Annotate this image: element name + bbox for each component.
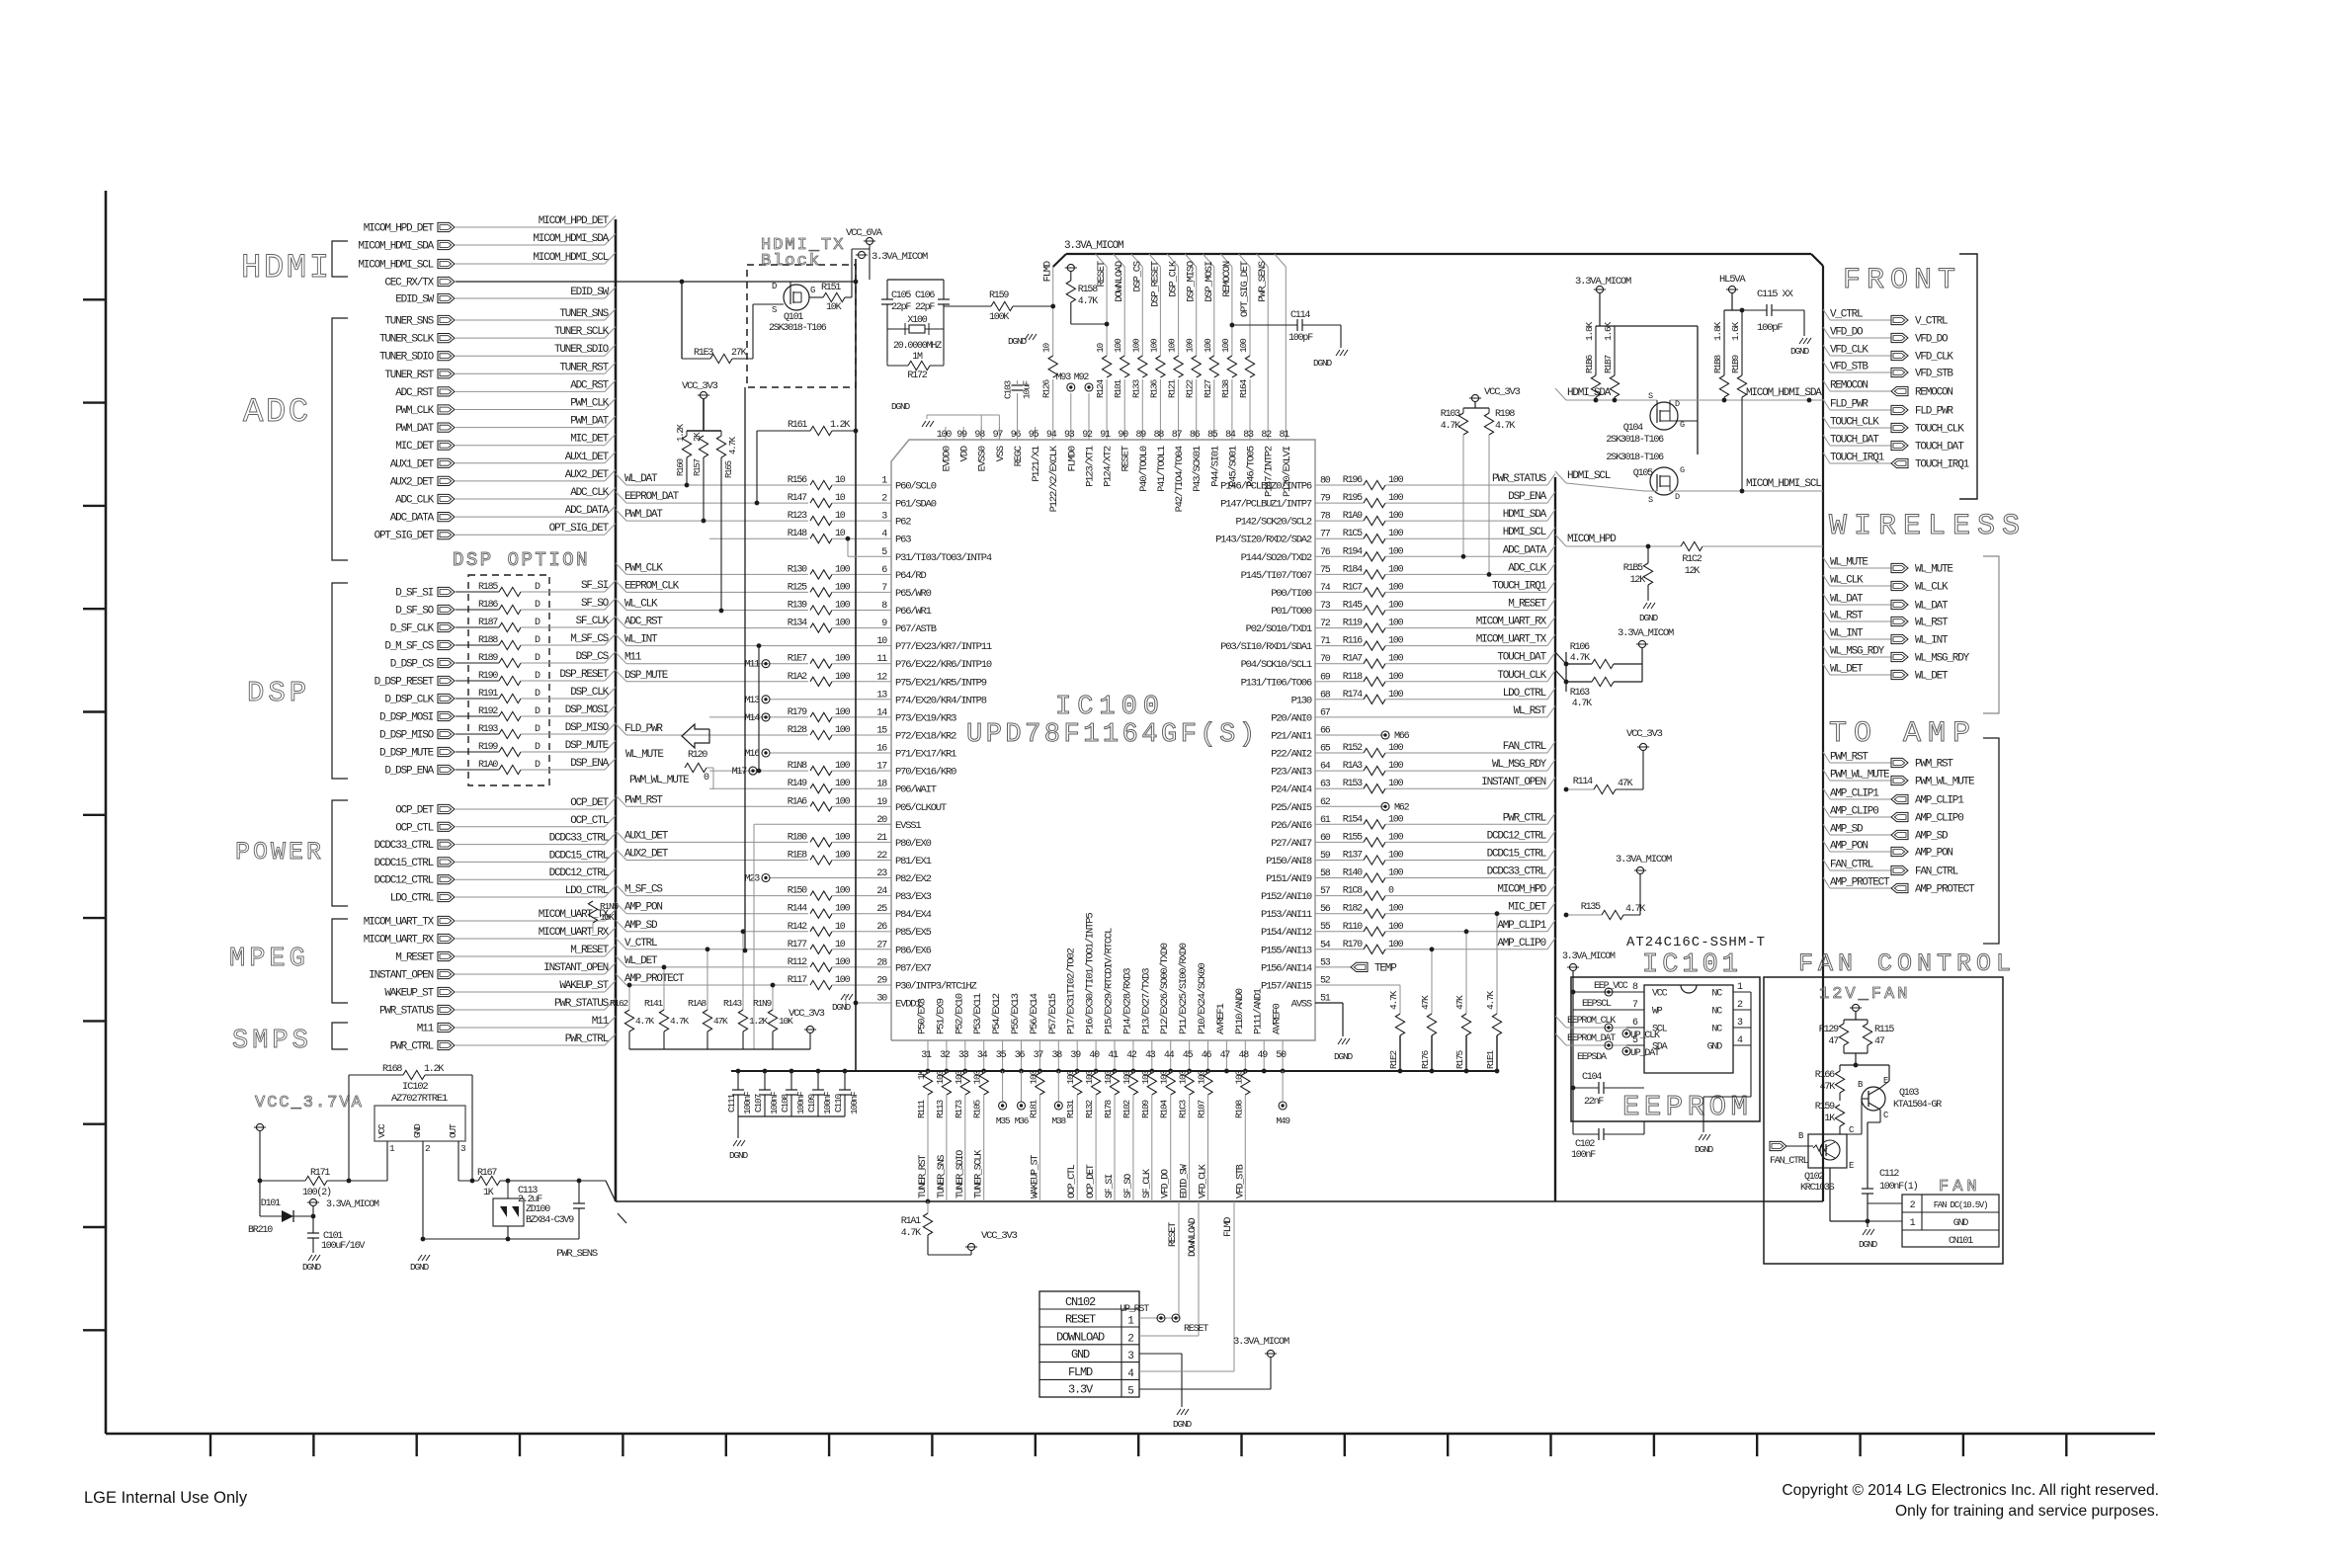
svg-text:100uF/16V: 100uF/16V — [321, 1240, 365, 1252]
svg-text:WL_RST: WL_RST — [1830, 611, 1864, 622]
svg-text:DCDC12_CTRL: DCDC12_CTRL — [549, 867, 609, 879]
svg-text:83: 83 — [1243, 430, 1254, 441]
svg-text:VCC_3V3: VCC_3V3 — [682, 380, 718, 392]
testpoint M66 — [1381, 731, 1389, 739]
svg-text:D_DSP_CLK: D_DSP_CLK — [384, 695, 434, 706]
pin 39 P17/EX31TI02/TO02 — [1076, 1040, 1078, 1071]
svg-text:WL_DAT: WL_DAT — [624, 473, 658, 485]
svg-text:ADC_DATA: ADC_DATA — [390, 513, 435, 525]
svg-text:P81/EX1: P81/EX1 — [895, 856, 932, 867]
resistor R151 10K — [809, 296, 823, 298]
svg-text:M13: M13 — [745, 696, 761, 706]
resistor R111 1K — [927, 1071, 929, 1073]
pin 16 P71/EX17/KR1 — [879, 752, 891, 754]
svg-text:AMP_PROTECT: AMP_PROTECT — [1915, 884, 1975, 896]
pin 20 EVSS1 — [879, 823, 891, 825]
svg-text:M_RESET: M_RESET — [1508, 599, 1546, 611]
pin 97 VSS — [998, 427, 1000, 440]
tag WL_MSG_RDY — [1823, 646, 1830, 657]
svg-text:2SK3018-T106: 2SK3018-T106 — [769, 323, 827, 334]
svg-text:50: 50 — [1276, 1050, 1287, 1061]
svg-text:NC: NC — [1711, 989, 1722, 1000]
svg-text:HDMI_SDA: HDMI_SDA — [1567, 387, 1612, 399]
svg-text:P72/EX18/KR2: P72/EX18/KR2 — [895, 731, 956, 743]
svg-text:TUNER_SCLK: TUNER_SCLK — [974, 1150, 985, 1198]
transistor Q101 2SK3018-T106 — [784, 285, 809, 310]
svg-text:R195: R195 — [1343, 493, 1363, 504]
svg-text:C109: C109 — [806, 1093, 817, 1113]
svg-text:C105 C106: C105 C106 — [891, 290, 935, 301]
svg-text:4.7K: 4.7K — [1485, 990, 1496, 1010]
svg-text:45: 45 — [1183, 1050, 1194, 1061]
svg-text:WAKEUP_ST: WAKEUP_ST — [384, 988, 434, 1000]
resistor R109 100 — [1151, 1071, 1153, 1073]
svg-text:100: 100 — [835, 601, 851, 612]
svg-text:PWR_STATUS: PWR_STATUS — [1492, 473, 1547, 485]
bracket SMPS group — [332, 1023, 348, 1049]
svg-text:ADC_RST: ADC_RST — [624, 617, 663, 628]
tag FLD_PWR — [1823, 399, 1830, 410]
svg-text:93: 93 — [1064, 430, 1075, 441]
wire WL_INT branch — [758, 646, 760, 772]
svg-text:R196: R196 — [1343, 475, 1363, 486]
svg-text:VCC_6VA: VCC_6VA — [846, 227, 883, 239]
svg-text:P00/TI00: P00/TI00 — [1271, 588, 1312, 600]
svg-text:AVSS: AVSS — [1291, 999, 1312, 1011]
svg-text:R159: R159 — [989, 290, 1009, 301]
svg-text:UP_DAT: UP_DAT — [1630, 1048, 1660, 1059]
svg-text:P64/RD: P64/RD — [895, 570, 927, 582]
svg-text:LDO_CTRL: LDO_CTRL — [390, 893, 434, 905]
svg-text:DGND: DGND — [1790, 346, 1810, 357]
resistor R165 4.7K — [720, 431, 722, 436]
svg-text:AMP_CLIP1: AMP_CLIP1 — [1830, 788, 1879, 800]
svg-text:R1E8: R1E8 — [788, 851, 807, 862]
pin 66 P21/ANI1 — [1315, 734, 1327, 736]
pin 46 P10/EX24/SCK00 — [1207, 1040, 1209, 1071]
svg-text:100: 100 — [1388, 654, 1404, 665]
svg-text:100: 100 — [835, 654, 851, 665]
resistor R175 47K — [1465, 932, 1467, 1014]
svg-text:R1N5: R1N5 — [600, 901, 620, 912]
testpoint M62 — [1381, 802, 1389, 810]
svg-text:OPT_SIG_DET: OPT_SIG_DET — [374, 531, 435, 542]
svg-text:R187: R187 — [478, 618, 498, 628]
svg-text:INSTANT_OPEN: INSTANT_OPEN — [369, 970, 433, 982]
svg-text:M_SF_CS: M_SF_CS — [570, 633, 609, 645]
svg-text:PWR_CTRL: PWR_CTRL — [1503, 812, 1546, 824]
svg-text:100nF: 100nF — [1571, 1150, 1596, 1161]
pin 36 P55/EX13 — [1021, 1040, 1023, 1071]
svg-text:DGND: DGND — [1334, 1051, 1354, 1062]
svg-text:P15/EX29/RTCDIV/RTCCL: P15/EX29/RTCDIV/RTCCL — [1104, 928, 1116, 1034]
capacitor C108 100nF — [790, 1071, 792, 1090]
svg-text:VFD_STB: VFD_STB — [1830, 362, 1868, 373]
svg-text:WL_DET: WL_DET — [1915, 671, 1949, 683]
svg-text:100: 100 — [835, 725, 851, 736]
svg-text:100: 100 — [935, 1070, 946, 1085]
svg-text:INSTANT_OPEN: INSTANT_OPEN — [543, 962, 608, 974]
svg-text:EVSS0: EVSS0 — [977, 446, 989, 471]
tag PWM_WL_MUTE — [1823, 770, 1830, 781]
svg-text:Q102: Q102 — [1804, 1172, 1824, 1183]
svg-text:WL_CLK: WL_CLK — [1915, 582, 1949, 594]
svg-text:M93: M93 — [1056, 372, 1072, 383]
svg-text:Copyright © 2014 LG Electronic: Copyright © 2014 LG Electronics Inc. All… — [1782, 1482, 2159, 1499]
svg-text:M23: M23 — [745, 874, 761, 885]
svg-text:FLD_PWR: FLD_PWR — [624, 723, 663, 735]
svg-text:DOWNLOAD: DOWNLOAD — [1056, 1330, 1105, 1344]
svg-text:100: 100 — [1065, 1070, 1076, 1085]
svg-text:P44/SI01: P44/SI01 — [1209, 446, 1221, 487]
svg-text:MICOM_UART_TX: MICOM_UART_TX — [539, 909, 610, 921]
svg-text:P50/EX8: P50/EX8 — [917, 998, 929, 1034]
svg-text:R192: R192 — [478, 706, 498, 717]
resistor R132 100 — [1095, 1071, 1097, 1073]
svg-text:TOUCH_CLK: TOUCH_CLK — [1830, 417, 1879, 429]
wire EEPROM_DAT — [1555, 1033, 1566, 1045]
svg-text:R174: R174 — [1343, 690, 1363, 701]
pin 75 P145/TI07/TO07 — [1315, 573, 1327, 575]
svg-text:100: 100 — [1388, 868, 1404, 879]
svg-text:MICOM_HPD_DET: MICOM_HPD_DET — [364, 223, 435, 235]
svg-text:97: 97 — [993, 430, 1004, 441]
testpoint M14 — [762, 713, 770, 721]
resistor R161 1.2K — [756, 431, 758, 503]
transistor Q102 KRC103S — [1808, 1134, 1847, 1168]
wire right bus — [1554, 477, 1556, 1201]
svg-text:R1A6: R1A6 — [788, 796, 807, 807]
svg-text:DSP_CS: DSP_CS — [576, 651, 610, 663]
svg-text:3.3VA_MICOM: 3.3VA_MICOM — [1064, 240, 1123, 252]
pin 30 EVDD1 — [879, 1002, 891, 1004]
svg-text:AVREF0: AVREF0 — [1272, 1003, 1284, 1034]
svg-text:UP_CLK: UP_CLK — [1630, 1031, 1660, 1041]
svg-text:37: 37 — [1034, 1050, 1044, 1061]
svg-text:4.7K: 4.7K — [1078, 296, 1098, 307]
svg-text:R194: R194 — [1343, 546, 1363, 557]
svg-text:P03/SI10/RXD1/SDA1: P03/SI10/RXD1/SDA1 — [1220, 641, 1312, 653]
svg-text:PWR_CTRL: PWR_CTRL — [390, 1041, 434, 1053]
bracket FRONT — [1959, 254, 1977, 499]
resistor R159 100K — [944, 305, 991, 307]
pin 77 P143/SI20/RXD2/SDA2 — [1315, 537, 1327, 539]
wire EDID/dark vertical — [855, 259, 857, 1071]
pin 49 P111/AND1 — [1263, 1040, 1265, 1071]
power VCC_3.7VA — [256, 1123, 263, 1130]
svg-text:DGND: DGND — [1695, 1144, 1714, 1155]
svg-text:100: 100 — [835, 832, 851, 843]
svg-text:V_CTRL: V_CTRL — [1915, 316, 1948, 328]
svg-text:10: 10 — [1095, 342, 1106, 353]
resistors R129/R115 47 parallel — [1844, 1019, 1868, 1021]
svg-text:D_SF_CLK: D_SF_CLK — [390, 623, 435, 635]
svg-text:DSP_CS: DSP_CS — [1131, 261, 1143, 292]
svg-text:VCC_3V3: VCC_3V3 — [1626, 728, 1663, 740]
svg-text:LGE Internal Use Only: LGE Internal Use Only — [84, 1489, 248, 1507]
resistor R133 100 — [1137, 356, 1147, 379]
svg-text:10: 10 — [835, 940, 846, 950]
svg-text:TOUCH_DAT: TOUCH_DAT — [1830, 435, 1879, 447]
tag WL_RST — [1823, 611, 1830, 621]
svg-text:VCC_3V3: VCC_3V3 — [981, 1230, 1018, 1242]
resistor R122 100 — [1192, 356, 1202, 379]
svg-text:VDD: VDD — [959, 446, 971, 461]
svg-text:3.3VA_MICOM: 3.3VA_MICOM — [1233, 1336, 1289, 1348]
svg-text:35: 35 — [996, 1050, 1007, 1061]
svg-text:WL_DET: WL_DET — [1830, 664, 1864, 676]
resistor R102 100 — [1132, 1071, 1134, 1073]
pin 23 P82/EX2 — [879, 877, 891, 879]
pin 26 P85/EX5 — [879, 931, 891, 933]
svg-text:IC101: IC101 — [1642, 950, 1742, 980]
pin 5 P31/TI03/TO03/INTP4 — [879, 555, 891, 557]
resistor R124 10 — [1102, 356, 1112, 379]
svg-text:R184: R184 — [1343, 564, 1363, 575]
column pin 91 RESET — [1096, 254, 1108, 267]
svg-text:MICOM_HDMI_SDA: MICOM_HDMI_SDA — [533, 233, 609, 245]
svg-text:MICOM_UART_RX: MICOM_UART_RX — [1476, 617, 1547, 628]
pin 28 P87/EX7 — [879, 966, 891, 968]
column pin 82 PWR_SENS — [1257, 254, 1269, 267]
svg-text:R1A2: R1A2 — [788, 672, 807, 683]
resistor R166 47K — [1839, 1065, 1841, 1071]
svg-text:P82/EX2: P82/EX2 — [895, 873, 932, 885]
svg-text:EVDD0: EVDD0 — [942, 446, 954, 471]
svg-text:TOUCH_DAT: TOUCH_DAT — [1915, 442, 1964, 454]
svg-text:100: 100 — [1388, 511, 1404, 522]
svg-text:FAN_CTRL: FAN_CTRL — [1830, 860, 1873, 871]
svg-text:WL_CLK: WL_CLK — [1830, 575, 1864, 587]
svg-text:MIC_DET: MIC_DET — [570, 434, 609, 446]
svg-text:M11: M11 — [624, 652, 642, 664]
svg-text:EEPSCL: EEPSCL — [1582, 999, 1612, 1010]
svg-text:47K: 47K — [1820, 1082, 1836, 1093]
svg-text:R107: R107 — [1197, 1101, 1207, 1119]
svg-text:1.6K: 1.6K — [1730, 321, 1741, 341]
svg-text:OPT_SIG_DET: OPT_SIG_DET — [1239, 261, 1251, 317]
fan control box — [1764, 977, 2003, 1264]
svg-text:C107: C107 — [753, 1094, 764, 1113]
svg-text:4.7K: 4.7K — [1625, 904, 1645, 915]
svg-text:P30/INTP3/RTC1HZ: P30/INTP3/RTC1HZ — [895, 981, 977, 993]
svg-text:3: 3 — [1127, 1351, 1133, 1362]
svg-text:R156: R156 — [788, 475, 807, 486]
svg-text:HDMI_SCL: HDMI_SCL — [1567, 470, 1611, 482]
svg-text:P43/SCK01: P43/SCK01 — [1192, 446, 1204, 492]
svg-text:100: 100 — [1388, 922, 1404, 933]
svg-text:DSP_MOSI: DSP_MOSI — [565, 704, 609, 716]
svg-text:47: 47 — [1828, 1036, 1839, 1047]
svg-text:PWM_RST: PWM_RST — [624, 794, 663, 806]
pin 60 P27/ANI7 — [1315, 841, 1327, 843]
bracket TO AMP — [1983, 738, 1999, 944]
resistor R1N5 10K — [588, 901, 597, 923]
transistor Q104 2SK3018-T106 — [1650, 402, 1678, 430]
svg-text:DGND: DGND — [1173, 1419, 1193, 1430]
svg-text:GND: GND — [1953, 1218, 1969, 1229]
svg-text:100: 100 — [835, 975, 851, 986]
resistor R121 100 — [1174, 356, 1184, 379]
svg-text:P71/EX17/KR1: P71/EX17/KR1 — [895, 749, 956, 761]
svg-text:OCP_DET: OCP_DET — [395, 805, 434, 817]
svg-text:M_RESET: M_RESET — [395, 952, 434, 964]
svg-text:10K: 10K — [779, 1016, 793, 1027]
svg-text:OCP_CTL: OCP_CTL — [570, 815, 608, 827]
svg-text:OUT: OUT — [448, 1123, 458, 1138]
tag VFD_CLK — [1823, 345, 1830, 356]
svg-text:FLMD0: FLMD0 — [1066, 446, 1078, 471]
svg-text:P87/EX7: P87/EX7 — [895, 962, 932, 974]
svg-text:100nF: 100nF — [769, 1091, 780, 1114]
svg-text:AMP_CLIP0: AMP_CLIP0 — [1830, 806, 1878, 818]
svg-text:100: 100 — [972, 1070, 983, 1085]
resistor R101 100 — [1120, 356, 1129, 379]
svg-text:DGND: DGND — [891, 401, 911, 412]
svg-text:R189: R189 — [478, 653, 498, 664]
svg-text:VFD_CLK: VFD_CLK — [1830, 345, 1868, 357]
svg-text:P23/ANI3: P23/ANI3 — [1271, 767, 1312, 779]
svg-text:100: 100 — [1148, 338, 1159, 353]
svg-text:Q103: Q103 — [1899, 1088, 1919, 1099]
svg-text:47K: 47K — [713, 1016, 728, 1027]
svg-text:UP_RST: UP_RST — [1120, 1304, 1149, 1315]
svg-text:100: 100 — [835, 672, 851, 683]
svg-text:R126: R126 — [1041, 378, 1052, 398]
svg-text:SF_SI: SF_SI — [581, 580, 609, 592]
svg-text:R165: R165 — [724, 460, 734, 478]
svg-text:P130: P130 — [1291, 695, 1312, 706]
svg-text:C108: C108 — [780, 1093, 790, 1113]
svg-text:CN101: CN101 — [1949, 1236, 1973, 1247]
eeprom right pin wires — [1750, 992, 1752, 1045]
svg-text:TUNER_SDIO: TUNER_SDIO — [554, 344, 610, 356]
pin 53 P156/ANI14 — [1315, 966, 1327, 968]
svg-text:10: 10 — [835, 511, 846, 522]
svg-text:100nF(1): 100nF(1) — [1879, 1181, 1918, 1193]
svg-text:R1C5: R1C5 — [1343, 529, 1363, 539]
testpoint UP_RST — [1157, 1314, 1165, 1322]
svg-text:REGC: REGC — [1013, 446, 1025, 466]
tag REMOCON — [1823, 380, 1830, 391]
pin 27 P86/EX6 — [879, 949, 891, 950]
capacitor C107 100nF — [764, 1071, 766, 1090]
pin 7 P65/WR0 — [879, 591, 891, 593]
pin 92 P123/XT1 — [1088, 427, 1090, 440]
svg-text:P75/EX21/KR5/INTP9: P75/EX21/KR5/INTP9 — [895, 677, 987, 689]
svg-text:P26/ANI6: P26/ANI6 — [1271, 820, 1312, 832]
tag TOUCH_IRQ1 — [1823, 453, 1830, 463]
svg-text:OCP_DET: OCP_DET — [570, 797, 609, 809]
svg-text:R115: R115 — [1874, 1025, 1894, 1035]
svg-text:WL_DAT: WL_DAT — [1915, 601, 1949, 613]
resistor R1A1 4.7K — [926, 1199, 931, 1204]
svg-text:100: 100 — [1220, 338, 1231, 353]
svg-text:P151/ANI9: P151/ANI9 — [1266, 873, 1312, 885]
svg-text:4.7K: 4.7K — [1570, 653, 1590, 664]
svg-text:UPD78F1164GF(S): UPD78F1164GF(S) — [966, 720, 1259, 750]
svg-text:LDO_CTRL: LDO_CTRL — [1503, 688, 1546, 700]
svg-text:TUNER_SDIO: TUNER_SDIO — [379, 352, 435, 364]
svg-text:R1B7: R1B7 — [1603, 355, 1614, 373]
svg-text:AUX1_DET: AUX1_DET — [390, 458, 435, 470]
svg-text:100: 100 — [835, 904, 851, 915]
svg-text:R171: R171 — [310, 1168, 330, 1179]
svg-text:R157: R157 — [693, 458, 703, 476]
svg-text:WL_INT: WL_INT — [624, 634, 658, 646]
svg-text:PWR_STATUS: PWR_STATUS — [379, 1006, 435, 1018]
svg-text:100: 100 — [1388, 761, 1404, 772]
testpoint M35 — [1002, 1071, 1004, 1102]
svg-text:DSP_RESET: DSP_RESET — [559, 669, 609, 681]
pin 15 P72/EX18/KR2 — [879, 734, 891, 736]
tag AMP_SD — [1823, 824, 1830, 835]
svg-text:R175: R175 — [1454, 1049, 1465, 1069]
svg-text:20.0000MHZ: 20.0000MHZ — [893, 341, 942, 352]
column pin 81 — [1275, 254, 1287, 267]
svg-text:P24/ANI4: P24/ANI4 — [1271, 784, 1312, 796]
svg-text:P31/TI03/TO03/INTP4: P31/TI03/TO03/INTP4 — [895, 552, 992, 564]
svg-text:VFD_CLK: VFD_CLK — [1915, 352, 1953, 364]
resistor R126 10 — [1048, 356, 1058, 379]
resistor R158 4.7K — [1067, 264, 1074, 271]
pin 44 P12/EX26/SO00/TXD0 — [1170, 1040, 1172, 1071]
svg-text:DGND: DGND — [1008, 336, 1028, 347]
column pin 90 DOWNLOAD — [1114, 254, 1125, 267]
bracket ADC group — [332, 318, 348, 560]
svg-text:R1E3: R1E3 — [694, 348, 713, 359]
svg-text:R139: R139 — [788, 601, 807, 612]
svg-text:3.3VA_MICOM: 3.3VA_MICOM — [872, 251, 928, 263]
svg-text:4.7K: 4.7K — [1441, 421, 1460, 432]
svg-text:R127: R127 — [1203, 379, 1213, 398]
resistor R108 100 — [1244, 1071, 1246, 1073]
svg-text:BR210: BR210 — [248, 1225, 273, 1236]
svg-text:10: 10 — [1041, 342, 1052, 353]
svg-text:C104: C104 — [1582, 1072, 1602, 1083]
pin 24 P83/EX3 — [879, 895, 891, 897]
svg-text:22pF 22pF: 22pF 22pF — [891, 302, 935, 313]
svg-text:1K: 1K — [483, 1188, 494, 1198]
svg-text:P145/TI07/TO07: P145/TI07/TO07 — [1241, 570, 1312, 582]
svg-text:100: 100 — [1159, 1070, 1170, 1085]
svg-text:DCDC15_CTRL: DCDC15_CTRL — [374, 858, 434, 869]
svg-text:R142: R142 — [788, 922, 807, 933]
tag V_CTRL — [1823, 309, 1830, 320]
svg-text:R149: R149 — [788, 779, 807, 789]
svg-text:AMP_PON: AMP_PON — [624, 902, 662, 914]
svg-text:EDID_SW: EDID_SW — [1180, 1164, 1191, 1198]
svg-text:ZD100: ZD100 — [526, 1204, 550, 1215]
svg-text:1K: 1K — [916, 1070, 927, 1081]
svg-text:PWR_CTRL: PWR_CTRL — [565, 1033, 609, 1045]
svg-text:AZ7027RTRE1: AZ7027RTRE1 — [391, 1093, 448, 1105]
svg-text:100: 100 — [1388, 564, 1404, 575]
pin 10 P77/EX23/KR7/INTP11 — [879, 645, 891, 647]
svg-text:10: 10 — [835, 493, 846, 504]
svg-text:D_SF_SI: D_SF_SI — [395, 588, 433, 600]
svg-text:R1C2: R1C2 — [1682, 554, 1702, 565]
pin 91 P124/XT2 — [1106, 427, 1108, 440]
svg-text:100: 100 — [835, 582, 851, 593]
svg-text:FAN DC(10.5V): FAN DC(10.5V) — [1934, 1200, 1988, 1210]
svg-text:R122: R122 — [1185, 378, 1196, 398]
svg-text:R172: R172 — [907, 371, 927, 381]
testpoint M38 — [1057, 1071, 1059, 1102]
tag WL_INT — [1823, 628, 1830, 639]
svg-text:P61/SDA0: P61/SDA0 — [895, 499, 937, 511]
svg-text:P155/ANI13: P155/ANI13 — [1261, 945, 1312, 956]
